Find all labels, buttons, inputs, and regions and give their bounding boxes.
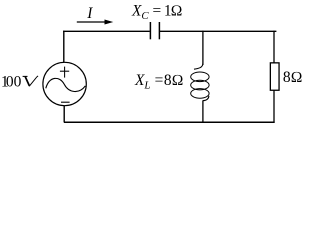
ac source sine wave xyxy=(46,78,86,91)
wire middle branch top (top wire down to inductor) xyxy=(202,31,204,65)
label 100V italic V glyph xyxy=(23,76,38,86)
loop 3 xyxy=(191,89,209,99)
resistor R body xyxy=(270,63,279,90)
ac source plus sign xyxy=(60,67,69,78)
current arrow I xyxy=(77,20,112,24)
ac source minus sign xyxy=(61,101,70,103)
inductor L (XL) coil xyxy=(191,64,209,101)
wire middle branch bottom (inductor to bottom wire) xyxy=(202,100,204,123)
svg-text:XL=8Ω: XL=8Ω xyxy=(134,72,183,92)
wire left branch bottom (source to bottom wire) xyxy=(63,106,65,123)
svg-text:XC=1Ω: XC=1Ω xyxy=(131,2,182,22)
ac source V1 circle xyxy=(43,62,86,105)
wire top right segment (capacitor right plate to right corner) xyxy=(160,30,277,32)
top hook xyxy=(194,64,203,70)
capacitor C (XC) plates xyxy=(150,22,159,39)
wire top left segment (source top to capacitor left plate) xyxy=(63,30,150,32)
wire right branch bottom (resistor to bottom wire) xyxy=(273,90,275,123)
svg-text:I: I xyxy=(86,5,93,22)
loop 2 xyxy=(191,80,209,90)
svg-text:100: 100 xyxy=(1,73,22,90)
wire left branch top (top wire down to source) xyxy=(63,31,65,63)
wire bottom (bottom rail) xyxy=(64,121,275,123)
svg-text:8Ω: 8Ω xyxy=(283,69,303,86)
loop 1 xyxy=(191,72,209,82)
wire right branch top (top wire down to resistor) xyxy=(273,31,275,63)
bottom hook xyxy=(203,96,209,101)
